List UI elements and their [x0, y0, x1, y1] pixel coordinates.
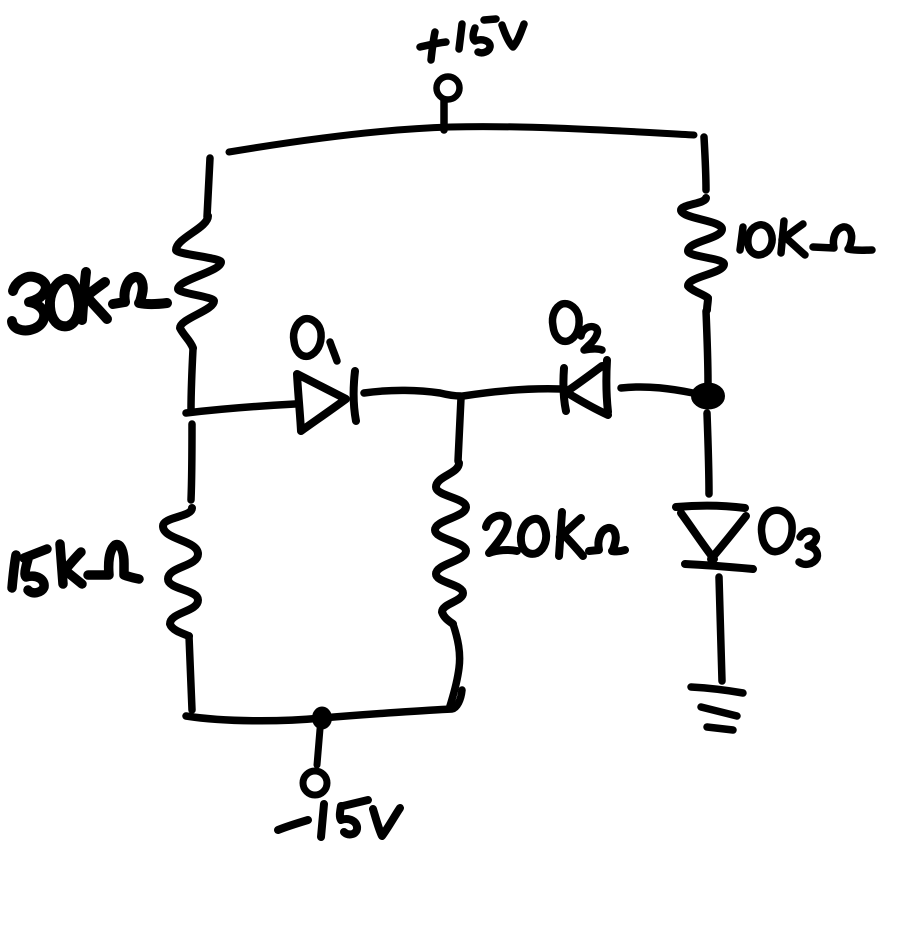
terminal -15V [303, 771, 327, 795]
resistor 10k [681, 198, 724, 310]
resistor 20k [435, 463, 466, 624]
wire: 15k to bottom bus [189, 636, 192, 710]
diode D3 [676, 506, 753, 569]
wire: 15k top [191, 424, 192, 500]
wire: D1 to center tap [364, 390, 461, 396]
wire: 20k to bottom bus [450, 624, 460, 706]
label -15V [278, 800, 400, 837]
label 20kΩ [486, 512, 625, 556]
label 10kΩ [740, 221, 872, 255]
label +15V [420, 19, 524, 60]
label D3 [761, 510, 817, 564]
terminal +15V [437, 77, 460, 100]
node: bottom bus / -15V tap [314, 708, 331, 728]
wire: D3 to ground [719, 577, 722, 681]
diode D1 [297, 371, 356, 431]
label 15kΩ [12, 544, 139, 593]
wire: 10k to node [706, 311, 708, 383]
resistor 15k [163, 508, 198, 636]
wire: bottom bus [186, 690, 462, 721]
wire: node to D3 [707, 413, 709, 494]
wire: center tap to 20k [458, 398, 461, 461]
wire: mid-left horizontal [186, 404, 295, 413]
node: D2/10k/D3 junction [693, 385, 723, 408]
wire: D2 to node [621, 387, 693, 393]
diode D2 [563, 360, 608, 415]
label D1 [294, 319, 337, 361]
resistor 30k [176, 216, 221, 348]
wire: top bus [229, 127, 694, 152]
wire: +15V stub [440, 101, 448, 130]
wire: 30k to mid node [191, 349, 193, 410]
wire: -15V stub [317, 729, 320, 765]
wire: center tap to D2 [463, 389, 561, 396]
label 30kΩ [12, 272, 167, 330]
wire: left branch top stub [207, 158, 210, 217]
ground [691, 687, 743, 730]
wire: right branch top stub [704, 137, 706, 190]
label D2 [552, 304, 602, 350]
